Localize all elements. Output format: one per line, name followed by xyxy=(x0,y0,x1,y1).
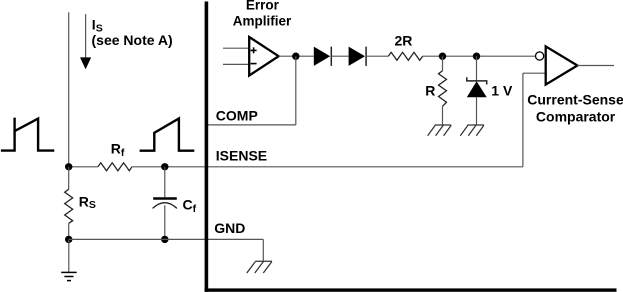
wire op-amp output xyxy=(279,55,314,57)
svg-text:GND: GND xyxy=(214,220,245,236)
waveform left (with leading-edge spike) xyxy=(1,118,54,151)
wire Is input vertical xyxy=(68,12,70,167)
wire GND rail xyxy=(69,238,264,240)
ground (chassis) below R xyxy=(428,125,452,136)
wire comparator output xyxy=(577,65,614,67)
svg-text:2R: 2R xyxy=(394,33,412,49)
wire ISENSE riser xyxy=(522,73,524,167)
ground (chassis) below zener xyxy=(460,125,484,136)
wire 2R-node xyxy=(423,55,536,57)
node B xyxy=(161,163,168,170)
svg-text:COMP: COMP xyxy=(216,107,258,123)
op-amp U1 input stubs xyxy=(223,47,249,49)
wire COMP horizontal xyxy=(206,124,295,126)
wire ISENSE rail xyxy=(132,166,523,168)
ground (signal) below RS xyxy=(61,239,76,280)
current arrow Is xyxy=(80,14,91,69)
wire D2-2R xyxy=(366,55,388,57)
IC boundary bottom xyxy=(205,288,617,291)
svg-text:1 V: 1 V xyxy=(491,82,513,98)
node D xyxy=(161,236,168,243)
svg-text:R: R xyxy=(425,83,435,99)
node E xyxy=(439,53,446,60)
resistor Rf xyxy=(98,163,132,171)
resistor 2R xyxy=(388,52,422,60)
svg-text:(see Note A): (see Note A) xyxy=(92,32,173,48)
node A xyxy=(65,163,72,170)
IC boundary vertical xyxy=(205,2,209,292)
op-amp U1 xyxy=(249,37,278,76)
svg-text:Comparator: Comparator xyxy=(536,108,616,124)
resistor RS xyxy=(65,167,73,240)
svg-text:Error: Error xyxy=(246,0,280,12)
resistor R xyxy=(439,56,447,125)
wire D1-D2 xyxy=(331,55,348,57)
wire node A to Rf xyxy=(69,166,98,168)
ground (chassis) at GND pin xyxy=(247,261,272,273)
capacitor Cf xyxy=(153,167,177,240)
wire GND pin drop xyxy=(262,239,264,261)
zener diode 1V xyxy=(467,56,487,125)
comparator U2 input bubble xyxy=(536,52,544,60)
diode D1 xyxy=(314,47,332,66)
wire COMP vertical xyxy=(295,56,297,125)
node COMP junction xyxy=(292,53,299,60)
svg-text:ISENSE: ISENSE xyxy=(216,147,267,163)
svg-text:Amplifier: Amplifier xyxy=(233,14,292,29)
diode D2 xyxy=(349,47,367,66)
wire comparator lower input xyxy=(523,72,546,74)
comparator U2 xyxy=(546,46,578,84)
node C xyxy=(65,236,72,243)
waveform right (filtered) xyxy=(140,119,195,151)
svg-text:Current-Sense: Current-Sense xyxy=(527,92,623,108)
node F xyxy=(473,53,480,60)
